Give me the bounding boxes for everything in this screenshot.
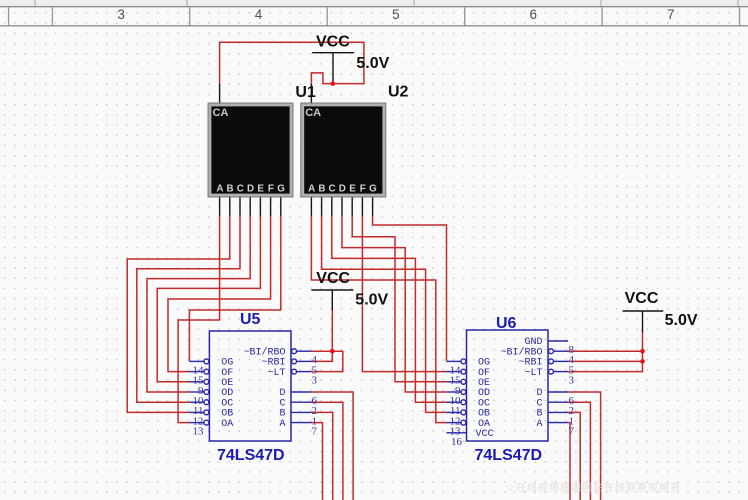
svg-text:U5: U5 (240, 311, 261, 328)
svg-text:3: 3 (117, 7, 125, 22)
svg-text:4: 4 (255, 7, 263, 22)
svg-text:~BI/RBO: ~BI/RBO (243, 346, 285, 358)
svg-text:6: 6 (530, 7, 538, 22)
svg-text:A: A (216, 184, 223, 195)
svg-text:A: A (308, 184, 315, 195)
svg-text:5: 5 (392, 7, 400, 22)
svg-text:C: C (329, 184, 336, 195)
svg-text:74LS47D: 74LS47D (475, 447, 543, 464)
svg-text:~BI/RBO: ~BI/RBO (500, 346, 542, 358)
svg-text:VCC: VCC (476, 429, 494, 440)
svg-text:E: E (349, 184, 356, 195)
svg-text:16: 16 (451, 436, 463, 448)
svg-text:C: C (237, 184, 244, 195)
svg-text:3: 3 (312, 375, 318, 387)
svg-text:OA: OA (221, 419, 233, 430)
svg-text:B: B (318, 184, 325, 195)
svg-text:74LS47D: 74LS47D (217, 447, 285, 464)
svg-text:E: E (257, 184, 264, 195)
svg-text:~LT: ~LT (267, 368, 285, 379)
svg-text:13: 13 (193, 426, 205, 438)
svg-text:~LT: ~LT (524, 368, 542, 379)
svg-text:7: 7 (312, 426, 318, 438)
svg-text:5.0V: 5.0V (356, 55, 389, 72)
svg-text:3: 3 (569, 375, 575, 387)
svg-text:D: D (339, 184, 346, 195)
svg-text:CA: CA (305, 107, 321, 119)
svg-text:7: 7 (667, 7, 675, 22)
svg-text:☆在线视频资源网站在线观看视频资: ☆在线视频资源网站在线观看视频资 (505, 481, 681, 494)
svg-text:5.0V: 5.0V (665, 312, 698, 329)
svg-text:VCC: VCC (316, 270, 350, 287)
svg-text:7: 7 (569, 426, 575, 438)
svg-text:CA: CA (213, 107, 229, 119)
svg-text:G: G (369, 184, 377, 195)
svg-text:VCC: VCC (625, 290, 659, 307)
svg-text:A: A (536, 419, 542, 430)
svg-text:F: F (268, 184, 274, 195)
svg-text:5.0V: 5.0V (355, 292, 388, 309)
svg-text:A: A (279, 419, 285, 430)
svg-text:U6: U6 (496, 315, 517, 332)
svg-text:VCC: VCC (316, 33, 350, 50)
svg-text:U2: U2 (388, 84, 409, 101)
svg-text:U1: U1 (295, 84, 316, 101)
svg-text:D: D (247, 184, 254, 195)
svg-text:G: G (277, 184, 285, 195)
svg-text:B: B (227, 184, 234, 195)
svg-text:F: F (360, 184, 366, 195)
